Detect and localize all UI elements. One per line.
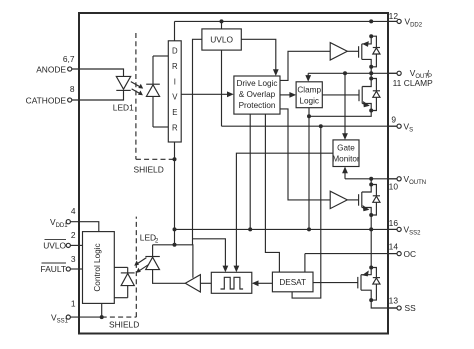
arrow into Clamp Logic left [289,92,296,98]
wire Q1 drain to VOUTP rail [370,67,372,74]
isolation shield 1 dashed horizontal [136,158,175,160]
pin 14 OC [389,242,416,259]
svg-text:E: E [172,108,177,117]
pulse encoder box U9 [211,272,252,293]
photodiode PD2 [121,267,135,297]
wire DESAT to Q4 gate [313,282,358,284]
VSS2 rail [175,228,397,230]
svg-text:12: 12 [389,11,399,21]
wire Control Logic bottom to VSS1 [101,303,103,317]
svg-text:S: S [409,127,413,133]
wire Gate Monitor output to pulse encoder [236,153,333,267]
svg-text:UVLO: UVLO [210,35,233,45]
wire UVLO status to pulse encoder [193,239,226,267]
wire clamp ground down to VSS2 rail [308,116,310,229]
svg-text:2: 2 [71,230,76,240]
VOUTP CLAMP rail [308,72,397,74]
junction VSS2-clamp [307,227,311,231]
junction Q4 source node [369,298,373,302]
pin 3 FAULT [41,254,76,274]
svg-text:8: 8 [70,84,75,94]
svg-text:UVLO: UVLO [43,241,66,251]
buffer U4 [185,275,200,292]
wire ANODE to LED1 anode [72,69,124,76]
wire VSS1 to shield2 junction [70,316,101,318]
LED1 light emission arrows [131,82,143,96]
junction VDD2-Q1 [369,19,373,23]
pin 11 VOUTP CLAMP [393,68,433,88]
pin 4 VDD1 [50,206,76,229]
wire Q4 drain to VSS2 rail [370,229,372,267]
isolation shield 1 dashed vertical [135,33,137,159]
wire Q2 source to clamp ground node [309,111,371,117]
svg-text:& Overlap: & Overlap [239,90,276,99]
wire FAULT pin to Control Logic [70,268,82,270]
svg-text:SS: SS [405,303,417,313]
wire VOUTN rail to Gate Monitor bottom [344,172,346,179]
svg-text:V: V [172,93,178,102]
wire UVLO bottom to VS rail [221,50,223,126]
wire PD1 bottom to DRIVER [153,126,168,128]
arrow into pulse encoder top right [234,266,240,273]
svg-text:13: 13 [389,295,399,305]
svg-text:Control Logic: Control Logic [93,243,102,291]
Control Logic box U10 [83,232,115,304]
wire Q2 drain to VOUTP rail [370,73,372,78]
wire OC down into DESAT top [304,254,306,273]
wire VOUTP junction down to Gate Monitor [344,73,346,134]
transistor Q3 (N-ch) [359,185,372,216]
junction VOUTP-Q1Q2 [369,71,373,75]
junction Q3 drain node [369,183,373,187]
wire U3 to Q3 gate [347,199,358,201]
svg-text:ANODE: ANODE [36,65,66,75]
wire LED1 cathode to CATHODE [72,90,124,100]
svg-text:6,7: 6,7 [63,54,75,64]
Gate Monitor box U7 [332,140,360,167]
svg-text:FAULT: FAULT [41,264,66,274]
junction VSS2-DRIVER [173,227,177,231]
arrow into pulse encoder right [252,280,259,286]
UVLO box [202,29,241,50]
junction VSS2-DriveLogic [248,227,252,231]
arrow into Clamp Logic top [305,75,311,82]
svg-text:SHIELD: SHIELD [134,165,164,175]
LED2 light emission arrows [134,258,148,273]
svg-text:3: 3 [71,254,76,264]
svg-text:SHIELD: SHIELD [109,320,139,330]
transistor Q2 (clamp N-ch) [359,79,371,111]
body diode D3 [371,185,380,216]
svg-text:DD2: DD2 [410,23,423,29]
VOUTN rail [345,178,397,180]
wire VOUTP down to Clamp Logic [307,73,309,76]
svg-text:10: 10 [389,181,399,191]
wire DESAT bottom to VS rail [292,126,321,298]
wire U4 output to LED2 anode [153,270,186,284]
svg-text:Monitor: Monitor [332,155,360,164]
svg-text:Protection: Protection [239,101,276,110]
junction Q3 source node [369,213,373,217]
pin 1 VSS1 [51,299,76,325]
junction VS-DESAT [319,124,323,128]
svg-text:OC: OC [404,249,417,259]
junction VDD2-UVLO [220,19,224,23]
pin 16 VSS2 [389,218,421,237]
wire Drive Logic to buffer U3 [280,109,330,200]
svg-text:CLAMP: CLAMP [404,78,433,88]
body diode D2 [371,79,380,111]
wire DRIVER output to Drive Logic [181,93,228,95]
junction Q1 drain node [369,65,373,69]
pin 13 SS [389,295,416,313]
transistor Q4 (N-ch) [358,268,371,301]
wire PD1 top to DRIVER [153,55,168,57]
svg-text:D: D [172,47,178,56]
svg-text:Drive Logic: Drive Logic [237,79,278,88]
junction Q2 drain node [369,77,373,81]
junction VOUTP-gate monitor [343,71,347,75]
svg-text:LED: LED [140,232,156,242]
wire PD2 top to Control Logic [114,266,127,268]
wire Drive Logic ground to VSS2 [249,114,251,229]
VS rail [222,125,397,127]
svg-text:DD1: DD1 [56,223,69,229]
svg-text:OUTN: OUTN [409,180,426,186]
wire pulse encoder to buffer U4 [200,282,211,284]
junction clamp ground [307,114,311,118]
svg-text:2: 2 [155,238,159,244]
svg-text:Gate: Gate [337,144,355,153]
right side pin stubs through boundary [388,21,397,308]
arrow into pulse encoder top left [223,266,229,273]
svg-text:1: 1 [71,299,76,309]
VDD2 rail [175,20,397,22]
wire Clamp Logic bottom [308,108,310,117]
svg-text:DESAT: DESAT [279,278,306,287]
wire LED2 cathode net [153,245,193,278]
isolation shield 2 dashed vertical [135,217,137,318]
wire UVLO pin to Control Logic [70,244,82,246]
arrow into Gate Monitor bottom [342,167,348,174]
wire Q3 source to VSS2 rail [370,215,372,229]
body diode D1 [371,36,380,67]
DESAT box U8 [272,272,313,292]
buffer U3 [330,191,347,208]
wire UVLO left down to LED2 anode net [193,39,202,245]
svg-text:9: 9 [391,114,396,124]
pin 10 VOUTN [389,174,426,191]
Clamp Logic box U6 [296,82,322,108]
pin 9 VS [391,114,413,133]
junction VSS2-Q3Q4 [369,227,373,231]
svg-text:SS1: SS1 [57,318,69,324]
driver U1 box [168,41,181,142]
arrow into Gate Monitor top [342,133,348,140]
photodiode PD1 [146,56,160,127]
junction Q2 source node [369,109,373,113]
arrow into Drive Logic left [227,91,234,97]
LED2 [140,232,160,269]
Drive Logic and Overlap Protection box U5 [234,76,280,114]
wire Drive Logic to DESAT top [265,114,279,272]
OC rail [305,253,397,255]
svg-text:CATHODE: CATHODE [26,96,67,106]
wire UVLO right to Drive Logic top [241,39,275,71]
body diode D4 [371,268,380,301]
svg-text:LED1: LED1 [113,103,134,113]
junction VOUTN-Q3 [369,177,373,181]
svg-text:Logic: Logic [299,96,319,105]
wire PD2 bottom to Control Logic [114,297,127,299]
wire Q4 source to SS pin [371,300,397,308]
svg-text:11: 11 [393,78,402,88]
transistor Q1 (P-ch) [359,36,372,67]
pin 6,7 ANODE [36,54,75,75]
svg-text:R: R [172,62,178,71]
isolation shield 2 dashed horizontal [102,316,137,318]
wire U2 to Q1 gate [347,50,358,52]
junction LED2-driver ground [173,243,177,247]
svg-text:14: 14 [389,242,399,252]
arrow into Drive Logic top [273,69,279,76]
LED1 [113,76,134,112]
pin 2 UVLO input [43,230,76,251]
wire Clamp Logic to Q2 gate [322,94,359,96]
svg-text:16: 16 [389,218,399,228]
wire DRIVER top to VDD2 rail [174,21,176,40]
svg-text:4: 4 [71,206,76,216]
wire Drive Logic to buffer U2 [280,51,330,80]
svg-text:SS2: SS2 [409,231,421,237]
wire Drive Logic to Clamp Logic [280,94,291,96]
junction shield1-driver ground [173,157,177,161]
wire Q3 drain to VOUTN rail [370,179,372,185]
wire DESAT output to pulse encoder [257,282,272,284]
svg-text:Clamp: Clamp [297,85,321,94]
wire DRIVER bottom to VSS2 rail [174,142,176,245]
svg-text:I: I [174,77,176,86]
svg-text:R: R [172,124,178,133]
junction VSS1-shield2 [100,315,104,319]
wire VDD1 to Control Logic top [70,222,98,232]
wire UVLO top [221,21,223,29]
junction Q4 drain node [369,266,373,270]
pin 8 CATHODE [26,84,75,106]
buffer U2 [330,43,347,60]
junction Q1 source node [369,34,373,38]
IC boundary box [79,13,388,334]
pin 12 VDD2 [389,11,423,29]
